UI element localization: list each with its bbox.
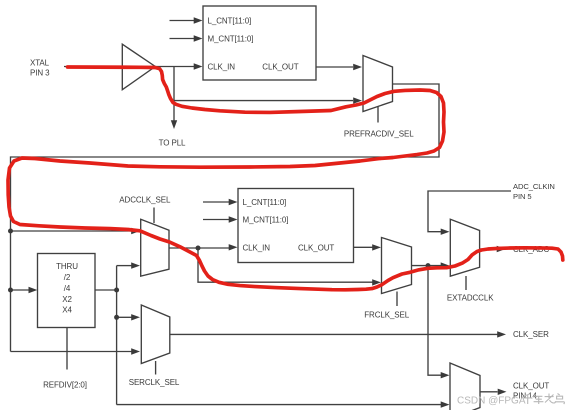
svg-text:CLK_IN: CLK_IN xyxy=(243,243,271,252)
svg-text:SERCLK_SEL: SERCLK_SEL xyxy=(129,378,180,387)
svg-text:X2: X2 xyxy=(62,295,72,304)
svg-text:CLK_SER: CLK_SER xyxy=(513,330,549,339)
svg-text:L_CNT[11:0]: L_CNT[11:0] xyxy=(208,17,252,26)
svg-text:PREFRACDIV_SEL: PREFRACDIV_SEL xyxy=(344,130,414,139)
svg-text:XTAL: XTAL xyxy=(30,59,50,68)
svg-text:X4: X4 xyxy=(62,306,72,315)
svg-text:PIN 5: PIN 5 xyxy=(513,192,532,201)
svg-text:CLK_OUT: CLK_OUT xyxy=(262,63,298,72)
svg-text:ADC_CLKIN: ADC_CLKIN xyxy=(513,182,555,191)
svg-text:CSDN @FPGA: CSDN @FPGA xyxy=(457,395,526,406)
svg-text:CLK_OUT: CLK_OUT xyxy=(298,243,334,252)
svg-text:REFDIV[2:0]: REFDIV[2:0] xyxy=(43,381,87,390)
svg-text:PIN 3: PIN 3 xyxy=(30,69,50,78)
svg-text:L_CNT[11:0]: L_CNT[11:0] xyxy=(243,198,287,207)
svg-text:/4: /4 xyxy=(64,284,71,293)
svg-text:THRU: THRU xyxy=(56,262,78,271)
svg-text:FRCLK_SEL: FRCLK_SEL xyxy=(364,310,410,319)
svg-text:M_CNT[11:0]: M_CNT[11:0] xyxy=(208,35,254,44)
svg-text:EXTADCCLK: EXTADCCLK xyxy=(447,293,494,302)
svg-text:CLK_IN: CLK_IN xyxy=(208,63,236,72)
svg-text:CLK_OUT: CLK_OUT xyxy=(513,382,549,391)
svg-text:TO PLL: TO PLL xyxy=(159,139,186,148)
svg-text:/2: /2 xyxy=(64,273,71,282)
svg-text:ADCCLK_SEL: ADCCLK_SEL xyxy=(119,196,171,205)
svg-text:M_CNT[11:0]: M_CNT[11:0] xyxy=(243,216,289,225)
